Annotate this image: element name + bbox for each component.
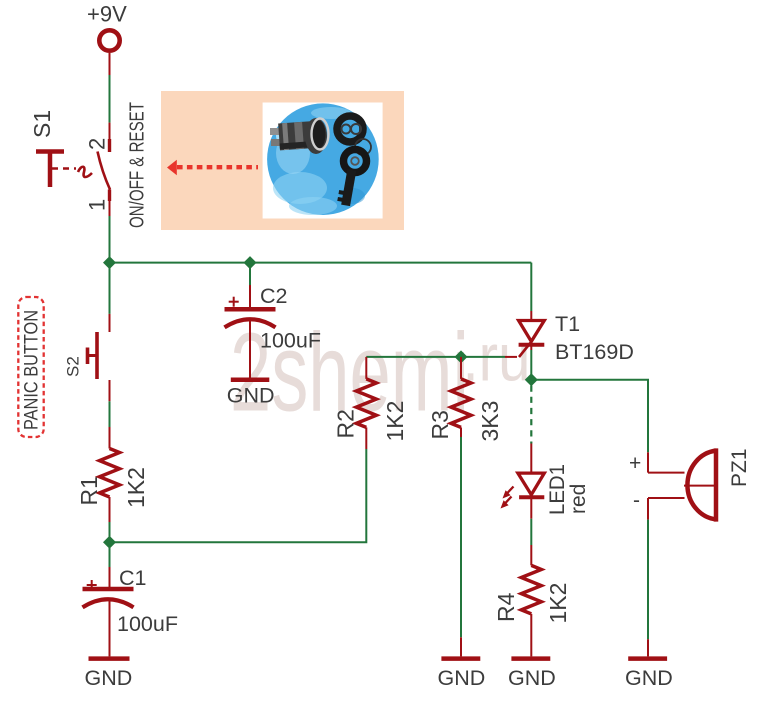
svg-text:LED1: LED1 [545, 464, 569, 515]
piezo buzzer PZ1 [629, 448, 751, 521]
svg-text:T1: T1 [555, 312, 580, 336]
svg-text:-: - [633, 489, 640, 512]
keyring wire [355, 139, 371, 155]
ground R4 [508, 659, 556, 690]
svg-text:BT169D: BT169D [555, 340, 634, 364]
node top rail / C2 junction [243, 256, 256, 269]
wire node C to buzzer branch [531, 380, 648, 453]
svg-text:GND: GND [625, 666, 673, 690]
LED LED1 [501, 444, 591, 519]
svg-text:+: + [629, 452, 641, 475]
watermark 2shemi.ru [230, 311, 531, 435]
capacitor C2 [225, 263, 321, 378]
svg-text:GND: GND [508, 666, 556, 690]
wire top rail down to T1 anode [530, 263, 532, 311]
svg-text:GND: GND [85, 666, 133, 690]
wire S1 to node A [109, 216, 111, 263]
svg-text:1: 1 [85, 199, 110, 211]
key 1 head [337, 116, 363, 142]
svg-text:.ru: .ru [463, 321, 531, 396]
photo callout box [161, 91, 404, 230]
svg-text:GND: GND [227, 384, 275, 408]
wire node A down to S2 [109, 263, 111, 314]
wire R1 to node B [109, 522, 111, 542]
node B junction [103, 536, 116, 549]
wire +9V stub [109, 53, 111, 75]
key switch photo [263, 103, 383, 219]
wire dashed node C to LED1 [530, 386, 532, 444]
resistor R2 [333, 357, 409, 449]
node A junction [103, 256, 116, 269]
svg-text:red: red [567, 484, 590, 514]
svg-text:R4: R4 [493, 592, 519, 622]
switch S1 (key switch) [29, 102, 149, 228]
ground C1 [85, 659, 133, 690]
node gate rail / R3 junction [454, 350, 467, 363]
svg-text:PZ1: PZ1 [728, 448, 751, 487]
wire +9V to S1 [109, 75, 111, 123]
callout arrow [167, 160, 258, 175]
wire S2 to R1 [109, 401, 111, 427]
panic button label box [18, 297, 43, 437]
lock flange ring [305, 118, 327, 154]
key 2 head and blade [344, 150, 367, 173]
svg-text:1K2: 1K2 [545, 583, 571, 624]
pushbutton S2 [64, 314, 110, 401]
svg-text:100uF: 100uF [117, 612, 178, 636]
svg-text:PANIC BUTTON: PANIC BUTTON [22, 310, 43, 430]
lock barrel [278, 121, 318, 151]
svg-text:C2: C2 [260, 284, 287, 308]
svg-text:R3: R3 [427, 410, 453, 439]
ground C2 [227, 380, 275, 408]
wire T1 cathode to node C [530, 350, 532, 380]
resistor R1 [76, 427, 149, 522]
svg-text:GND: GND [438, 666, 486, 690]
resistor R3 [427, 357, 503, 442]
+9V supply terminal [87, 2, 127, 51]
svg-text:ON/OFF & RESET: ON/OFF & RESET [127, 102, 149, 228]
wire node B to R2 bottom [110, 449, 367, 542]
svg-text:C1: C1 [119, 566, 146, 590]
svg-text:S1: S1 [29, 110, 55, 138]
node C junction [525, 373, 538, 386]
ground PZ1 [625, 659, 673, 690]
wire LED1 to R4 [530, 519, 532, 545]
lock prongs [270, 128, 279, 135]
svg-text:R1: R1 [76, 476, 102, 505]
svg-text:2: 2 [85, 138, 110, 150]
svg-text:R2: R2 [333, 409, 359, 438]
svg-text:S2: S2 [64, 356, 83, 377]
wire buzzer minus to ground [647, 520, 649, 640]
resistor R4 [493, 545, 571, 656]
wire R3 to ground [460, 437, 462, 637]
thyristor T1 BT169D [505, 311, 634, 364]
svg-text:1K2: 1K2 [123, 467, 149, 508]
svg-text:1K2: 1K2 [382, 401, 408, 442]
wire gate rail R2 to T1 [366, 356, 505, 358]
svg-text:100uF: 100uF [260, 329, 321, 353]
ground R3 [438, 659, 486, 690]
svg-text:3K3: 3K3 [477, 401, 503, 442]
capacitor C1 [83, 542, 178, 656]
key actuator [36, 149, 64, 154]
svg-text:+9V: +9V [87, 2, 127, 27]
wire top rail node A to T1 [110, 262, 532, 264]
